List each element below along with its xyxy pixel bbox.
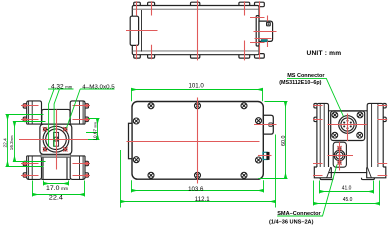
right view red marks [313,106,387,176]
front MS connector protrusion [263,115,273,134]
svg-text:UNIT : mm: UNIT : mm [307,50,342,57]
dim 41.0 [320,191,374,193]
leader SMA connector [277,165,337,217]
right view green dimensions [277,78,379,216]
top view red center lines [126,0,277,60]
right view right flange column [367,103,383,167]
left view bottom-right tower [70,156,85,180]
svg-text:45.0: 45.0 [343,197,353,203]
left view center slot [54,132,59,146]
dim 45.0 [314,203,380,205]
left view green dimensions [6,89,115,197]
right view foot bump lugs [320,178,333,180]
left view bottom middle block [42,157,71,179]
right view MS plate [331,111,365,141]
left view top-left tower [27,101,42,124]
dim 16.3 vertical [14,122,16,162]
front body [132,102,263,180]
left view corner holes [43,127,47,131]
dim 4.32 [48,88,74,90]
right view lugs [314,104,317,108]
left view top-right tower [70,101,85,124]
top view main body [132,6,259,55]
svg-text:101.0: 101.0 [189,83,205,90]
dim 101.0 [132,89,263,91]
dim 103.6 [132,190,264,192]
svg-text:SMA–Connector: SMA–Connector [277,211,321,217]
top view connector block [259,21,273,41]
top view right cap edge [256,16,259,46]
left view cross bars [27,124,85,156]
leader MS connector [287,78,344,116]
svg-text:41.0: 41.0 [342,185,352,191]
left view connector circles [43,126,69,152]
dim 10.67 vertical [97,119,99,140]
left view gray band under plate [41,154,71,157]
right view feet [314,167,331,178]
left view bottom-left tower [27,156,42,180]
front screws [133,103,261,179]
dim 17.0 [44,183,69,185]
top view teal part [261,40,267,42]
top view lugs top row [134,2,141,7]
svg-text:22.4: 22.4 [49,194,64,201]
front SMA connector protrusion [263,152,267,159]
leader 4-M3.0x0.5 [80,88,114,90]
left view red marks [19,104,93,176]
right view SMA flange [333,142,346,167]
svg-text:22.4: 22.4 [2,138,8,148]
svg-text:(MS3112E10–6p): (MS3112E10–6p) [279,80,321,86]
svg-text:(1/4–36 UNS–2A): (1/4–36 UNS–2A) [269,219,314,225]
right view SMA connector [334,150,345,161]
dim 60.0 [285,102,287,179]
dim 22.4 vertical [7,115,9,167]
top view connector small square [267,22,271,26]
left view top middle block [42,109,70,122]
top view lugs bottom row [134,54,141,59]
svg-text:103.6: 103.6 [188,186,204,193]
top view flange inner lines (gray) [133,9,259,51]
dim 112.1 [121,201,276,203]
svg-text:112.1: 112.1 [195,196,210,203]
right view left flange column [317,103,329,167]
right view SMA mount holes [338,146,342,150]
svg-text:4–M3.0x0.5: 4–M3.0x0.5 [82,84,114,90]
svg-text:16.3mm: 16.3mm [9,135,14,150]
svg-text:10.67 mm: 10.67 mm [92,122,97,141]
left view center plate [40,124,72,154]
front left tab [129,123,133,158]
top view left end cap [130,16,138,45]
svg-text:60.0: 60.0 [281,136,287,147]
dim 22.4 bottom [33,194,85,196]
svg-text:MS Connector: MS Connector [287,73,325,79]
right view middle body top edge [329,110,368,112]
front red center lines [127,98,277,184]
right view MS connector [339,116,357,134]
right view MS plate screws [332,112,363,138]
left view lugs [23,104,27,108]
